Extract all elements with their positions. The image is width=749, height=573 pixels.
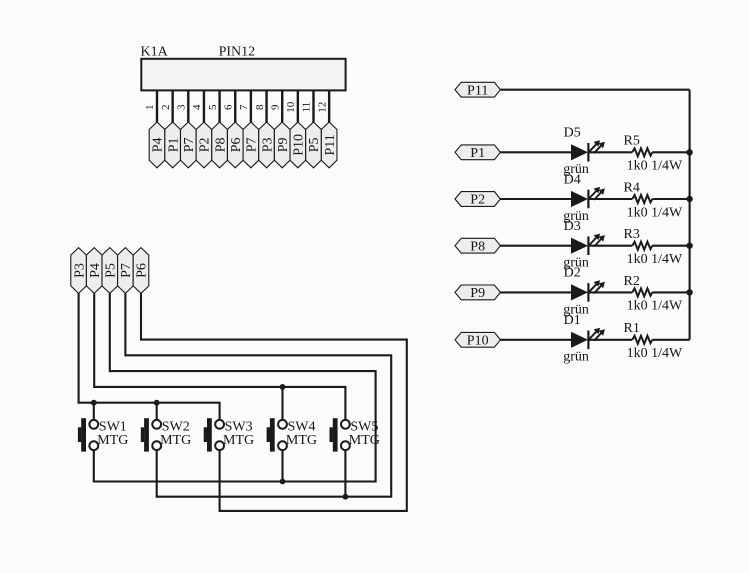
switch SW5 reference label	[350, 420, 378, 435]
wire net P3: tag down, across, into SW3 top	[79, 293, 220, 420]
net label P8	[455, 238, 500, 254]
net label P11	[455, 82, 500, 98]
svg-text:5: 5	[207, 104, 219, 110]
resistor R1 value label	[627, 346, 683, 361]
svg-text:P2: P2	[470, 193, 485, 208]
wire stub SW4 bottom to P5 line	[281, 450, 283, 481]
svg-text:grün: grün	[563, 350, 589, 365]
LED D5	[571, 140, 605, 161]
pin 6 wire	[234, 90, 236, 123]
wire resistor R3 to bus	[652, 245, 689, 247]
net label P10 (pin 10)	[290, 122, 307, 168]
pin number 9	[269, 104, 281, 110]
LED D3 designator label	[564, 219, 581, 234]
switch SW5 value label MTG	[349, 433, 380, 448]
svg-text:R1: R1	[624, 321, 640, 336]
svg-text:D1: D1	[564, 313, 581, 328]
wire LED D1 to resistor R1	[589, 339, 632, 341]
svg-text:P8: P8	[213, 138, 228, 153]
connector value label PIN12	[219, 45, 256, 60]
svg-text:3: 3	[176, 104, 188, 110]
svg-text:7: 7	[238, 104, 250, 110]
junction P3/SW1	[91, 400, 97, 406]
LED D1 designator label	[564, 313, 581, 328]
wire net P6: tag down, across, down to SW3 bottom	[141, 293, 407, 511]
resistor R3 designator label	[624, 227, 640, 242]
svg-text:P6: P6	[229, 138, 244, 153]
resistor R2 value label	[627, 299, 683, 314]
pin number 11	[301, 102, 313, 113]
net label P6 (pin 6)	[227, 122, 244, 168]
pin 1 wire	[156, 90, 158, 123]
net label P7 (pin 7)	[243, 122, 260, 168]
resistor R2	[632, 288, 652, 296]
pin number 1	[144, 104, 156, 110]
svg-text:D5: D5	[564, 126, 581, 141]
junction bus/R3	[686, 243, 692, 249]
wire LED D2 to resistor R2	[589, 291, 632, 293]
svg-text:1k0 1/4W: 1k0 1/4W	[627, 346, 683, 361]
net label P1 (pin 2)	[165, 122, 182, 168]
svg-text:P6: P6	[135, 263, 150, 278]
svg-text:R3: R3	[624, 227, 640, 242]
svg-text:P5: P5	[104, 263, 119, 278]
resistor R4	[632, 195, 652, 203]
pin 4 wire	[203, 90, 205, 123]
pin 7 wire	[250, 90, 252, 123]
net label P4	[86, 248, 103, 294]
pin 12 wire	[328, 90, 330, 123]
resistor R1	[632, 336, 652, 344]
switch SW4	[267, 418, 287, 451]
svg-text:D2: D2	[564, 266, 581, 281]
svg-text:4: 4	[191, 104, 203, 110]
svg-text:2: 2	[160, 104, 172, 110]
wire LED D5 to resistor R5	[589, 151, 632, 153]
switch SW2	[141, 418, 161, 451]
switch SW3 value label MTG	[223, 433, 254, 448]
resistor R5	[632, 148, 652, 156]
svg-text:R4: R4	[624, 180, 640, 195]
svg-text:P1: P1	[166, 138, 181, 153]
LED D4 designator label	[564, 172, 581, 187]
svg-text:P10: P10	[292, 134, 307, 156]
svg-text:1k0 1/4W: 1k0 1/4W	[627, 252, 683, 267]
switch SW4 value label MTG	[286, 433, 317, 448]
net label P6	[133, 248, 150, 294]
svg-text:P9: P9	[276, 138, 291, 153]
wire net P4: tag down, across, into SW5 top	[94, 293, 345, 420]
resistor R1 designator label	[624, 321, 640, 336]
net label P11 (pin 12)	[321, 122, 338, 168]
net label P3	[71, 248, 88, 294]
svg-text:MTG: MTG	[349, 433, 380, 448]
wire LED D3 to resistor R3	[589, 245, 632, 247]
wire resistor R1 to bus	[652, 339, 689, 341]
pin 10 wire	[297, 90, 299, 123]
bus wire (vertical)	[689, 90, 691, 340]
LED D3 value label gr&#252;n	[563, 256, 589, 271]
LED D3	[571, 234, 605, 255]
svg-text:P7: P7	[182, 138, 197, 153]
junction P3/SW2	[154, 400, 160, 406]
LED D2 designator label	[564, 266, 581, 281]
pin 11 wire	[312, 90, 314, 123]
switch SW3	[204, 418, 224, 451]
net label P1	[455, 145, 500, 161]
pin number 4	[191, 104, 203, 110]
switch SW2 value label MTG	[160, 433, 191, 448]
wire net P7: tag down, across, down to bottom row	[125, 293, 391, 496]
wire P9 to LED D2	[500, 291, 571, 293]
net label P10	[455, 332, 500, 348]
pin number 5	[207, 104, 219, 110]
net label P3 (pin 8)	[259, 122, 276, 168]
LED D2 value label gr&#252;n	[563, 302, 589, 317]
pin number 12	[316, 102, 328, 113]
net label P9	[455, 285, 500, 301]
svg-text:12: 12	[316, 102, 328, 113]
svg-text:P9: P9	[470, 286, 485, 301]
switch SW4 reference label	[288, 420, 316, 435]
svg-text:11: 11	[301, 102, 313, 113]
svg-text:P2: P2	[198, 138, 213, 153]
svg-text:PIN12: PIN12	[219, 45, 256, 60]
switch SW5	[330, 418, 350, 451]
svg-text:P7: P7	[245, 138, 260, 153]
net label P2 (pin 4)	[196, 122, 213, 168]
wire P10 to LED D1	[500, 339, 571, 341]
pin number 7	[238, 104, 250, 110]
switch SW3 reference label	[225, 420, 253, 435]
svg-text:P4: P4	[88, 263, 103, 278]
svg-text:P11: P11	[467, 83, 488, 98]
switch SW2 reference label	[162, 420, 190, 435]
junction bus/R4	[686, 196, 692, 202]
svg-text:P10: P10	[467, 334, 489, 349]
svg-text:MTG: MTG	[97, 433, 128, 448]
svg-text:R5: R5	[624, 134, 640, 149]
resistor R5 value label	[627, 159, 683, 174]
LED D1 value label gr&#252;n	[563, 350, 589, 365]
svg-text:P5: P5	[307, 138, 322, 153]
resistor R4 value label	[627, 205, 683, 220]
svg-text:MTG: MTG	[160, 433, 191, 448]
wire P8 to LED D3	[500, 245, 571, 247]
junction bus/R2	[686, 289, 692, 295]
pin 5 wire	[218, 90, 220, 123]
pin 3 wire	[187, 90, 189, 123]
svg-text:8: 8	[254, 104, 266, 110]
pin number 3	[176, 104, 188, 110]
wire stub P3 to SW1 top	[93, 403, 95, 420]
wire stub P3 to SW2 top	[156, 403, 158, 420]
LED D4 value label gr&#252;n	[563, 209, 589, 224]
svg-text:1k0 1/4W: 1k0 1/4W	[627, 299, 683, 314]
junction P7/SW5	[343, 494, 349, 500]
pin 2 wire	[171, 90, 173, 123]
svg-text:MTG: MTG	[223, 433, 254, 448]
svg-text:1k0 1/4W: 1k0 1/4W	[627, 205, 683, 220]
wire P11 to bus	[500, 89, 689, 91]
switch SW1 value label MTG	[97, 433, 128, 448]
LED D1	[571, 328, 605, 349]
net label P5 (pin 11)	[306, 122, 323, 168]
svg-text:1k0 1/4W: 1k0 1/4W	[627, 159, 683, 174]
svg-text:P3: P3	[260, 138, 275, 153]
svg-text:D3: D3	[564, 219, 581, 234]
resistor R2 designator label	[624, 274, 640, 289]
svg-text:P1: P1	[470, 146, 485, 161]
resistor R3 value label	[627, 252, 683, 267]
pin number 8	[254, 104, 266, 110]
svg-text:P11: P11	[323, 134, 338, 155]
svg-text:9: 9	[269, 104, 281, 110]
svg-text:6: 6	[222, 104, 234, 110]
wire P1 to LED D5	[500, 151, 571, 153]
pin number 10	[285, 101, 297, 113]
reference designator K1A	[141, 45, 169, 60]
wire net P5: tag down, across, down right side to bottom row	[94, 293, 376, 481]
resistor R5 designator label	[624, 134, 640, 149]
wire stub P4 to SW4 top	[281, 387, 283, 420]
svg-text:P4: P4	[151, 138, 166, 153]
switch SW1 reference label	[99, 420, 127, 435]
pin number 6	[222, 104, 234, 110]
resistor R4 designator label	[624, 180, 640, 195]
svg-text:P7: P7	[119, 263, 134, 278]
LED D5 designator label	[564, 126, 581, 141]
wire resistor R2 to bus	[652, 291, 689, 293]
net label P9 (pin 9)	[274, 122, 291, 168]
resistor R3	[632, 242, 652, 250]
net label P5	[102, 248, 119, 294]
pin 9 wire	[281, 90, 283, 123]
LED D5 value label gr&#252;n	[563, 162, 589, 177]
svg-text:K1A: K1A	[141, 45, 169, 60]
wire resistor R5 to bus	[652, 151, 689, 153]
connector K1A body	[141, 59, 345, 91]
pin 8 wire	[265, 90, 267, 123]
LED D4	[571, 187, 605, 208]
svg-text:1: 1	[144, 104, 156, 110]
wire resistor R4 to bus	[652, 198, 689, 200]
wire P2 to LED D4	[500, 198, 571, 200]
svg-text:P8: P8	[470, 239, 485, 254]
svg-text:P3: P3	[72, 263, 87, 278]
net label P7	[118, 248, 135, 294]
svg-text:10: 10	[285, 101, 297, 113]
net label P7 (pin 3)	[181, 122, 198, 168]
wire stub SW5 bottom to P7 line	[344, 450, 346, 497]
svg-text:R2: R2	[624, 274, 640, 289]
junction P4/SW4	[280, 384, 286, 390]
net label P4 (pin 1)	[149, 122, 166, 168]
junction P5/SW4	[280, 479, 286, 485]
pin number 2	[160, 104, 172, 110]
svg-text:MTG: MTG	[286, 433, 317, 448]
junction bus/R5	[686, 149, 692, 155]
wire LED D4 to resistor R4	[589, 198, 632, 200]
LED D2	[571, 280, 605, 301]
net label P2	[455, 192, 500, 208]
svg-text:D4: D4	[564, 172, 581, 187]
net label P8 (pin 5)	[212, 122, 229, 168]
switch SW1	[78, 418, 98, 451]
